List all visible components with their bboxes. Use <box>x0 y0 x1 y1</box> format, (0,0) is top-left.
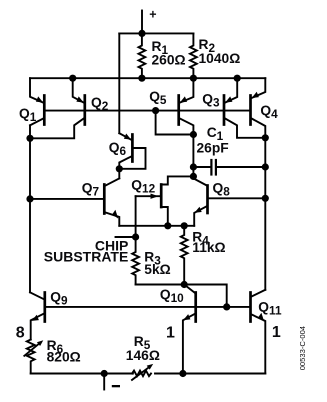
junction Q3 emitter <box>234 75 241 82</box>
svg-text:8: 8 <box>16 325 25 342</box>
transistor Q12 <box>136 176 194 225</box>
wire Q6/Q7 collector node <box>118 169 120 179</box>
svg-text:00533-C-004: 00533-C-004 <box>298 326 307 370</box>
junction R4 top <box>181 222 188 229</box>
label minus terminal <box>112 385 120 387</box>
junction minus terminal <box>101 370 108 377</box>
node minus terminal <box>103 374 105 390</box>
svg-text:Q12: Q12 <box>131 178 155 196</box>
svg-text:146Ω: 146Ω <box>126 348 160 363</box>
wire mid emitter rail <box>119 225 194 227</box>
svg-text:1040Ω: 1040Ω <box>199 51 241 66</box>
wire substrate stub <box>116 236 136 238</box>
svg-text:26pF: 26pF <box>197 141 229 156</box>
transistor Q7 <box>104 178 119 225</box>
svg-text:Q3: Q3 <box>202 92 220 110</box>
svg-text:11kΩ: 11kΩ <box>192 240 225 255</box>
svg-text:SUBSTRATE: SUBSTRATE <box>44 248 129 264</box>
junction V+ / R1 top <box>138 30 145 37</box>
transistor Q5 <box>179 78 194 134</box>
wire right rail <box>264 138 266 290</box>
junction Q5 collector node <box>190 131 197 138</box>
junction base rail / Q5 diode tie <box>152 107 159 114</box>
wire Q7 base <box>30 198 103 200</box>
capacitor C1 <box>193 160 265 175</box>
transistor Q10 <box>183 285 196 374</box>
junction Q12 lower lead <box>164 222 171 229</box>
transistor Q11 <box>251 290 266 374</box>
junction R2 bottom / Q5 emitter <box>190 75 197 82</box>
svg-text:Q1: Q1 <box>19 106 37 124</box>
transistor Q9 <box>30 292 45 339</box>
svg-text:Q10: Q10 <box>160 287 184 305</box>
svg-text:820Ω: 820Ω <box>47 350 81 365</box>
svg-text:Q6: Q6 <box>109 140 127 158</box>
svg-text:1: 1 <box>166 325 175 342</box>
wire base rail Q1-Q4 <box>44 110 250 112</box>
resistor R1 <box>139 33 146 78</box>
resistor R4 <box>181 226 188 285</box>
wire bottom rail <box>31 373 133 375</box>
wire Q12 emitter / substrate drop <box>135 196 137 237</box>
node + terminal <box>141 11 143 34</box>
svg-text:Q5: Q5 <box>149 89 167 107</box>
transistor Q3 <box>224 78 265 138</box>
wire Q5 diode connection <box>156 111 194 135</box>
svg-text:5kΩ: 5kΩ <box>144 262 170 277</box>
resistor R2 <box>190 33 197 78</box>
transistor Q2 <box>30 78 85 138</box>
junction Q3-Q4 collectors <box>262 134 269 141</box>
junction C1 left <box>190 163 197 170</box>
resistor R5 (variable) <box>132 364 153 380</box>
wire emitter rail <box>30 77 265 79</box>
node CHIP SUBSTRATE <box>132 233 139 240</box>
svg-text:1: 1 <box>272 324 281 341</box>
wire base rail Q9-Q11 <box>45 306 251 308</box>
transistor Q8 <box>193 178 265 225</box>
svg-text:Q7: Q7 <box>82 181 100 199</box>
junction Q8 base / right rail <box>262 195 269 202</box>
wire top rail <box>119 32 193 34</box>
junction Q10 emitter <box>179 370 186 377</box>
svg-text:Q9: Q9 <box>50 289 68 307</box>
junction R3-R4 bottom / Q10 collector <box>181 281 188 288</box>
wire R3 bottom to node <box>136 284 185 286</box>
resistor R6 (variable) <box>24 340 43 374</box>
wire node to Q11 base <box>184 285 227 307</box>
wire left rail <box>29 125 31 292</box>
svg-text:+: + <box>149 8 156 22</box>
svg-text:260Ω: 260Ω <box>152 53 186 68</box>
transistor Q6 <box>119 133 145 169</box>
wire bottom rail right <box>155 373 265 375</box>
svg-text:Q4: Q4 <box>260 103 278 121</box>
junction Q11 base <box>223 303 230 310</box>
junction Q2 emitter <box>69 75 76 82</box>
junction left rail / Q7 base <box>26 195 33 202</box>
junction C1 right <box>262 163 269 170</box>
junction Q12 collector <box>190 173 197 180</box>
resistor R3 <box>132 237 139 285</box>
wire Q5 collector node vertical <box>192 135 194 179</box>
junction Q6 collector / Q7 collector <box>116 165 123 172</box>
transistor Q1 <box>30 78 44 125</box>
junction R1 bottom <box>138 75 145 82</box>
svg-text:Q8: Q8 <box>213 181 231 199</box>
transistor Q4 <box>251 78 266 138</box>
junction Q1-Q2 collectors <box>26 135 33 142</box>
wire V+ left drop to Q6 emitter <box>118 33 120 133</box>
